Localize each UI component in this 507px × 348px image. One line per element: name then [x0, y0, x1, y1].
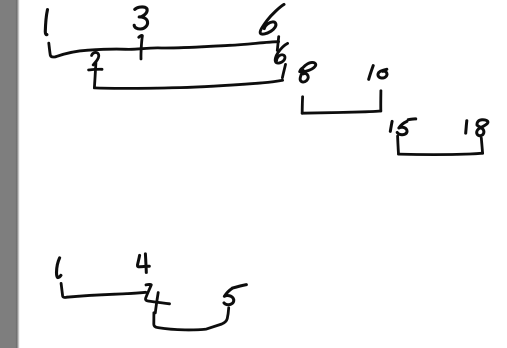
label "10" digit 0	[378, 69, 387, 78]
interval A tick under "3"	[139, 36, 143, 59]
interval D [15,18] left tick	[396, 136, 400, 154]
label "8" (interval C left endpoint)	[300, 62, 316, 82]
junction "4" descender	[155, 293, 158, 313]
label "6" (second, at joined endpoint)	[275, 43, 287, 63]
label "2" (interval B left endpoint)	[92, 52, 99, 64]
interval F [4,5] left side, bottom line and right rise	[154, 308, 229, 330]
label "4" (bottom, above junction) left stroke	[137, 255, 149, 266]
label "1" (bottom interval E left endpoint)	[57, 258, 61, 278]
interval D [15,18] horizontal line	[399, 153, 483, 154]
interval B [2,6] horizontal line	[94, 80, 282, 88]
label "3" (interval A right endpoint)	[134, 7, 147, 29]
label "10" digit 1	[369, 66, 374, 80]
left grey sidebar	[0, 0, 16, 348]
interval A [1,3] left tick with foot	[49, 43, 56, 57]
interval B [2,6] left tick	[94, 63, 96, 88]
label "2" bottom bar	[89, 68, 102, 72]
interval A [1,3] horizontal line (wavy)	[56, 42, 279, 57]
interval E [1,4] horizontal line	[67, 292, 146, 297]
interval E [1,4] left tick with foot	[61, 283, 67, 297]
label "18" digit 1	[466, 121, 467, 133]
interval B right tick (looks like a 1)	[282, 64, 285, 77]
label "5" top bar	[233, 285, 247, 289]
interval C [8,10] horizontal line	[302, 111, 381, 113]
label "5" body	[224, 288, 234, 305]
label "4" (bottom) vertical stroke	[144, 254, 148, 273]
interval C right tick	[379, 91, 382, 111]
label "15" digit 5 top bar	[408, 117, 416, 121]
interval D right tick	[481, 138, 482, 153]
label "18" digit 8	[477, 120, 488, 136]
interval A right end tick (crosses line)	[277, 37, 278, 51]
label "15" digit 1	[390, 121, 392, 131]
label "15" digit 5	[397, 121, 407, 134]
junction "4" z-shaped top (interval E right end / interval F left label)	[145, 285, 169, 304]
label "1" (top interval A left endpoint)	[45, 10, 47, 35]
interval C [8,10] left tick	[301, 97, 304, 113]
label "6" (interval B right endpoint, large)	[260, 4, 284, 34]
sidebar darker soft edge	[16, 0, 20, 348]
